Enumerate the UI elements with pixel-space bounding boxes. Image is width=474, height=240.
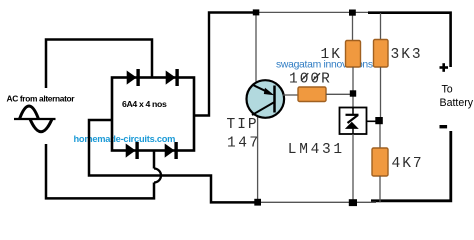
wire AC top loop to bridge top center xyxy=(46,40,152,89)
svg-text:To: To xyxy=(442,84,453,96)
svg-text:3K3: 3K3 xyxy=(391,47,423,63)
wire bridge right tap to top rail xyxy=(194,13,256,116)
node divider ref junction xyxy=(375,117,383,124)
svg-text:TIP: TIP xyxy=(227,117,259,133)
node bottom rail LM431 xyxy=(349,199,357,206)
battery plus sign xyxy=(440,63,449,72)
wire 1K bottom to LM431 top xyxy=(352,67,354,109)
diode D2 xyxy=(166,69,179,86)
resistor R3 3K3 xyxy=(374,40,389,68)
slashed zeros of 100R xyxy=(301,73,320,80)
svg-text:Battery: Battery xyxy=(440,97,474,109)
wire base lead xyxy=(283,94,298,96)
node top rail 1K xyxy=(349,10,356,16)
AC source V1 sine symbol xyxy=(14,106,56,132)
battery minus sign xyxy=(440,125,448,128)
resistor R4 4K7 xyxy=(372,148,388,176)
wire transistor emitter lead bottom xyxy=(257,117,259,202)
wire battery minus thick xyxy=(371,131,451,201)
diode D3 xyxy=(126,142,139,159)
node top rail left xyxy=(253,9,259,15)
wire 3K3 top lead xyxy=(380,13,382,40)
node 100R 1K LM431 junction xyxy=(350,90,356,96)
svg-text:147: 147 xyxy=(227,136,261,152)
transistor Q1 TIP147 xyxy=(246,80,284,118)
diode D4 xyxy=(165,142,178,159)
svg-text:100R: 100R xyxy=(289,71,332,87)
bridge rectifier outline xyxy=(112,78,194,151)
wire LM431 ref lead xyxy=(367,120,378,122)
wire bottom rail thin xyxy=(257,201,376,203)
svg-text:6A4 x 4 nos: 6A4 x 4 nos xyxy=(122,99,167,109)
wire LM431 anode to bottom rail xyxy=(352,134,354,200)
resistor R1 100R xyxy=(298,87,326,102)
wire battery plus thick xyxy=(368,13,451,67)
wire divider junction to 4K7 top xyxy=(379,123,381,149)
wire 100R to junction xyxy=(326,93,350,95)
wire hop top to bridge bottom center xyxy=(153,150,156,169)
diode D1 xyxy=(127,69,140,86)
wire 4K7 bottom lead xyxy=(379,176,381,203)
wire bridge left tap to bottom rail xyxy=(89,120,258,202)
svg-text:LM431: LM431 xyxy=(288,142,345,158)
wire AC bottom to hop xyxy=(46,144,154,198)
wire hop arc crossing xyxy=(154,169,161,183)
node bottom rail emitter xyxy=(254,199,261,206)
wire top rail thin xyxy=(256,11,372,13)
svg-text:1K: 1K xyxy=(321,47,342,63)
wire transistor collector lead top xyxy=(255,13,257,82)
shunt regulator U1 LM431 xyxy=(340,108,367,135)
svg-text:AC from alternator: AC from alternator xyxy=(7,94,76,104)
wire 1K top lead xyxy=(352,13,354,41)
resistor R2 1K xyxy=(346,41,361,68)
wire 3K3 bottom to divider junction xyxy=(380,67,382,118)
svg-text:4K7: 4K7 xyxy=(392,156,424,172)
label To Battery xyxy=(440,84,474,109)
